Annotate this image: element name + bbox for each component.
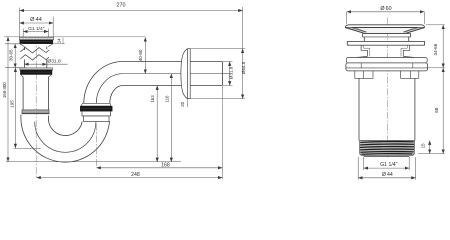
svg-text:40-80: 40-80	[138, 49, 143, 61]
inlet tube walls	[23, 77, 48, 110]
ring band facet lines	[346, 63, 428, 68]
svg-text:Ø 44: Ø 44	[30, 17, 42, 23]
flange plate	[347, 41, 424, 45]
outlet pipe bottom wall	[123, 85, 223, 87]
collar left socket	[22, 110, 50, 114]
svg-text:15: 15	[421, 143, 426, 148]
svg-text:68: 68	[434, 107, 439, 113]
dimension G1 1/4 bottom	[364, 157, 410, 170]
witness pipe end vertical	[221, 86, 223, 180]
svg-text:G1 1/4": G1 1/4"	[28, 26, 45, 32]
svg-text:Ø31.8: Ø31.8	[47, 58, 61, 64]
dimension 248	[36, 177, 222, 179]
dimension 168	[96, 167, 222, 169]
outlet nut N3	[80, 106, 112, 111]
threaded section	[360, 140, 415, 155]
tube stub below break	[24, 59, 46, 68]
body lugs	[355, 71, 419, 79]
dimension 14 nut height	[53, 38, 65, 44]
witness body right	[427, 67, 445, 69]
svg-text:Ø 60: Ø 60	[380, 6, 391, 12]
washer W2	[20, 68, 53, 70]
U-bend inner wall	[48, 116, 82, 136]
break zigzag upper	[20, 48, 49, 53]
outlet pipe top wall	[123, 61, 223, 63]
wall flange escutcheon	[181, 49, 190, 99]
dimension 30-65 adjustment	[5, 44, 24, 68]
elbow middle contour	[96, 74, 122, 104]
washer W1	[19, 37, 53, 39]
cap rim lower edge	[345, 26, 424, 28]
dimension 34-66	[442, 25, 444, 68]
centerline waste fitting	[386, 18, 388, 158]
svg-text:30-65: 30-65	[8, 49, 13, 61]
dimension 270 top overall	[20, 7, 243, 49]
dimension D64.5 flange	[242, 49, 244, 99]
svg-text:20: 20	[180, 101, 185, 106]
witness flange top	[191, 48, 246, 50]
cap dome top	[345, 25, 424, 28]
svg-text:14: 14	[57, 38, 62, 43]
dimension 195 trap depth	[14, 68, 41, 149]
dimension G1 1/4 inlet thread	[23, 29, 48, 38]
U-bend outer wall	[21, 115, 110, 163]
svg-text:270: 270	[117, 3, 126, 9]
break zigzag lower	[20, 55, 49, 60]
elbow inner wall	[110, 86, 123, 104]
cap underside cone	[345, 28, 424, 34]
svg-text:166-300: 166-300	[2, 82, 7, 98]
svg-text:168: 168	[161, 162, 170, 168]
outlet socket rings	[82, 111, 110, 121]
body ring band	[346, 63, 428, 71]
svg-text:195: 195	[9, 100, 14, 108]
svg-text:Ø 44: Ø 44	[382, 172, 393, 178]
dimension 40-80 outlet height	[144, 37, 146, 73]
U-bend middle contour	[35, 122, 96, 153]
dimension 163	[156, 86, 158, 163]
outlet nut rim	[81, 103, 111, 106]
witness pipe bottom	[223, 85, 233, 87]
dimension 166-300 overall height	[7, 37, 9, 162]
centerline inlet	[35, 37, 37, 177]
dimension D44 bottom	[358, 157, 415, 180]
outlet pipe end	[221, 62, 223, 86]
under plate steps	[361, 45, 410, 56]
witness cap top right	[426, 24, 445, 26]
dimension D44 inlet nut	[20, 17, 54, 38]
nut N1	[20, 40, 53, 47]
centerline outlet vertical	[95, 100, 97, 168]
tube stub above break	[24, 47, 46, 50]
witness pipe top	[223, 61, 233, 63]
dimension D60 cap	[346, 12, 424, 24]
svg-text:163: 163	[150, 95, 155, 103]
svg-text:34-66: 34-66	[433, 43, 438, 55]
witness thread bottom right	[418, 153, 445, 155]
dimension 68	[442, 68, 444, 154]
svg-text:248: 248	[131, 172, 140, 178]
dimension D31.8 pipe	[229, 62, 231, 86]
elbow outer wall	[84, 62, 123, 104]
dimension 15 thread length	[429, 141, 431, 154]
dimension 20 flange	[186, 99, 188, 107]
outlet pipe centerline	[123, 73, 231, 75]
neck	[362, 34, 411, 42]
body cylinder walls	[359, 78, 415, 140]
dimension 116	[170, 74, 172, 162]
svg-text:G1 1/4": G1 1/4"	[380, 162, 398, 168]
witness flange bottom	[191, 98, 246, 100]
svg-text:Ø31.8: Ø31.8	[228, 66, 233, 79]
nut N2	[20, 70, 52, 77]
body flare	[346, 56, 427, 63]
svg-text:116: 116	[165, 95, 170, 103]
pipe mouth bottom edge	[364, 156, 410, 158]
witness line top of inlet flange	[4, 36, 145, 38]
svg-text:Ø64.5: Ø64.5	[241, 61, 246, 74]
witness bottom tangent	[6, 161, 181, 163]
